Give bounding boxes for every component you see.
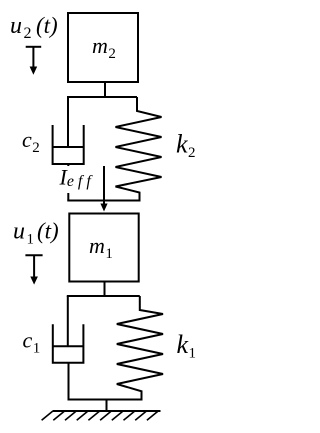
- upper assembly bottom bar: [67, 200, 140, 202]
- ground hatching: [42, 411, 158, 420]
- damper C2 piston rod: [67, 97, 69, 147]
- wire damper C1 bottom: [68, 363, 70, 400]
- damper C2 cylinder cup: [53, 125, 84, 164]
- lower assembly bottom bar: [68, 399, 143, 401]
- arrow u2: [26, 47, 42, 68]
- upper assembly top bar: [67, 96, 137, 98]
- mass m1 box: [69, 214, 138, 282]
- wire damper C2 bottom: [67, 164, 69, 201]
- label I_eff (white background over wire): [57, 164, 98, 193]
- damper C1 piston plate: [53, 345, 84, 347]
- ground line: [53, 410, 161, 412]
- svg-text:m2: m2: [92, 33, 116, 62]
- svg-text:k2: k2: [176, 130, 196, 162]
- svg-text:c2: c2: [22, 127, 40, 156]
- svg-text:k1: k1: [177, 330, 197, 362]
- lower assembly top bar: [67, 295, 140, 297]
- svg-text:m1: m1: [89, 233, 113, 262]
- wire m1 to lower bar: [104, 282, 106, 297]
- arrow u1: [25, 255, 42, 277]
- wire m2 to upper bar: [104, 82, 106, 97]
- damper C1 piston rod: [67, 296, 69, 346]
- spring K1: [117, 296, 163, 400]
- wire to ground: [106, 400, 108, 412]
- svg-text:c1: c1: [23, 328, 41, 357]
- damper C1 cylinder cup: [53, 324, 84, 362]
- arrow I_eff: [103, 166, 105, 205]
- mass m2 box: [68, 13, 138, 82]
- svg-text:u1(t): u1(t): [13, 219, 59, 248]
- spring K2: [116, 97, 162, 201]
- svg-text:u2(t): u2(t): [10, 13, 58, 42]
- damper C2 piston plate: [53, 146, 84, 148]
